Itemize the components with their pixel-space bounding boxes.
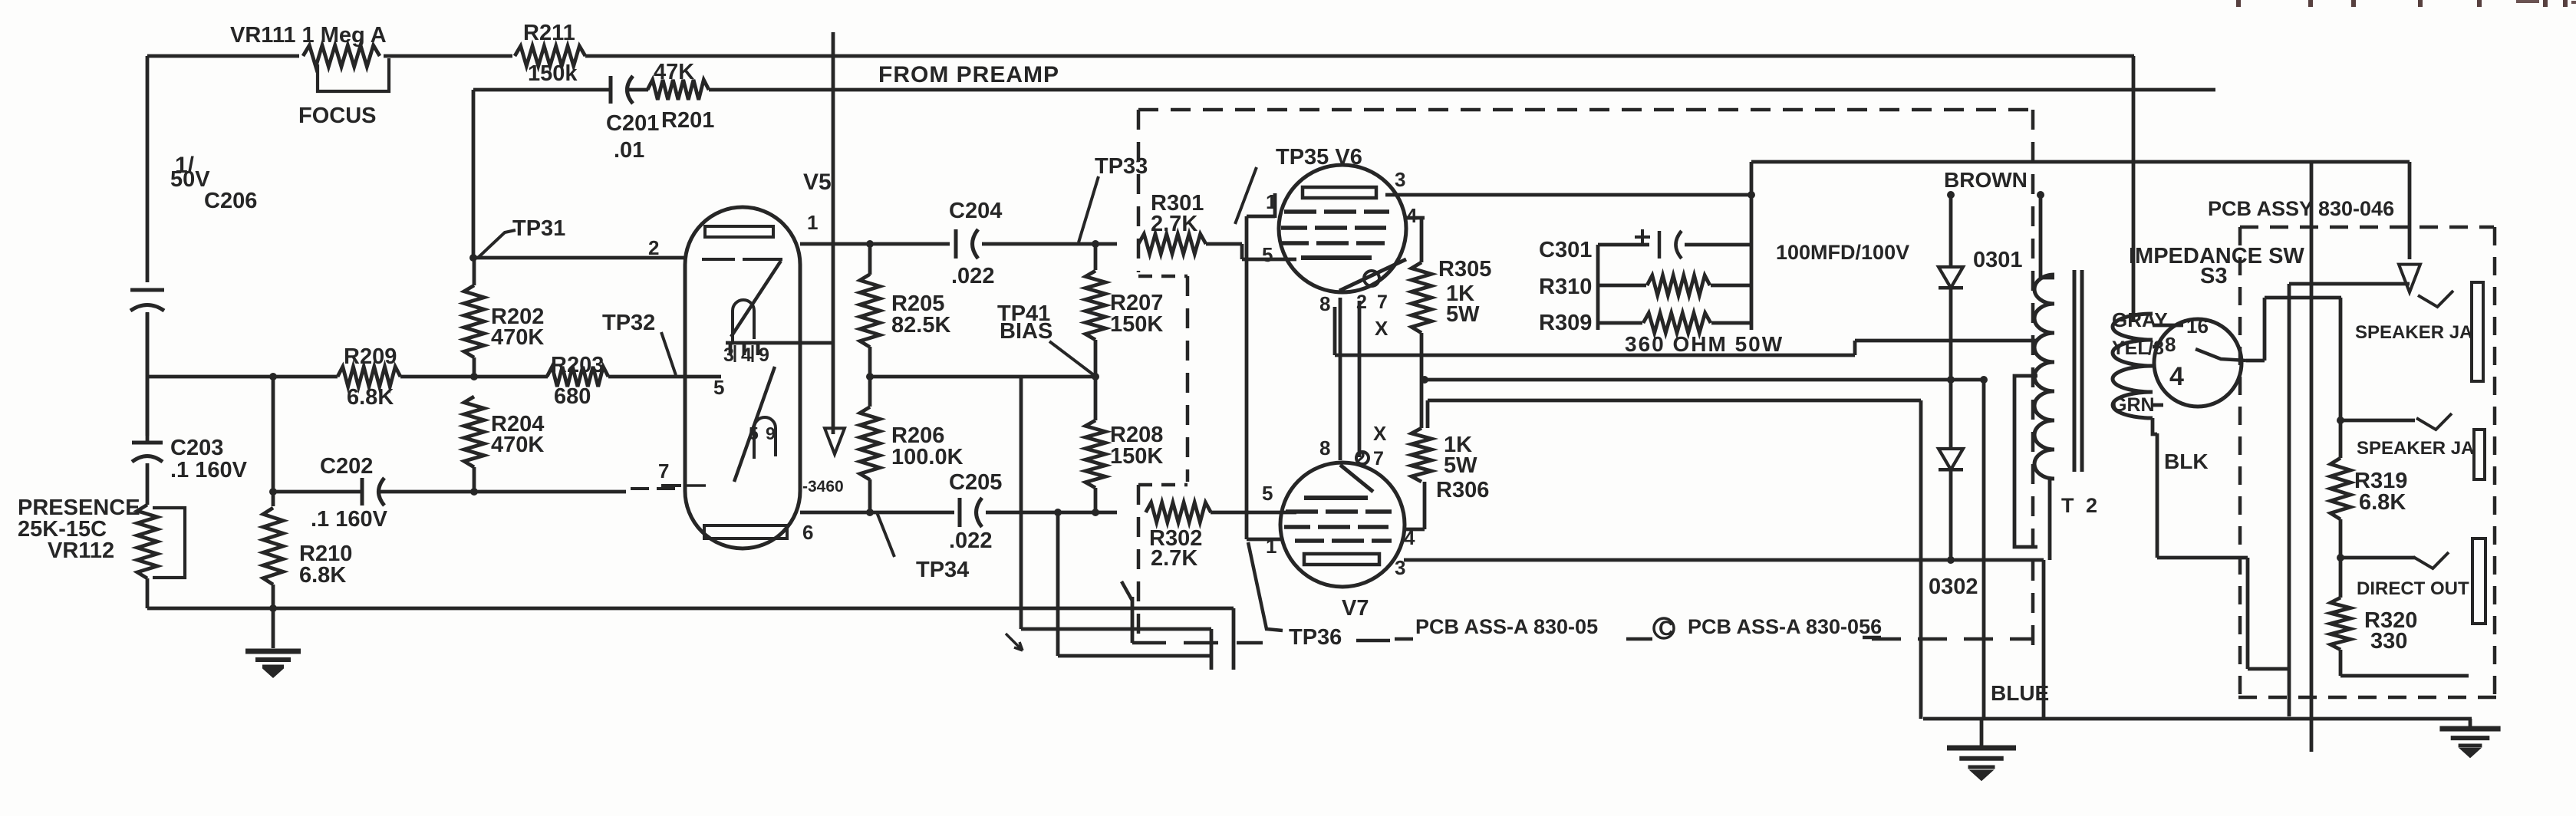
svg-text:GRN: GRN [2112, 394, 2155, 416]
svg-text:.1 160V: .1 160V [170, 458, 248, 482]
svg-text:2: 2 [1356, 291, 1367, 313]
svg-text:/8: /8 [2148, 338, 2164, 359]
svg-text:X: X [1373, 422, 1387, 445]
svg-text:6: 6 [802, 521, 813, 544]
svg-text:DIRECT OUT: DIRECT OUT [2357, 578, 2469, 599]
svg-text:C206: C206 [204, 189, 257, 213]
svg-text:6.8K: 6.8K [347, 385, 394, 410]
svg-text:R211: R211 [523, 21, 575, 45]
svg-text:PCB ASSY: PCB ASSY [2208, 197, 2313, 220]
svg-text:4: 4 [1404, 526, 1415, 549]
svg-text:2: 2 [1355, 448, 1365, 469]
svg-text:C202: C202 [320, 454, 373, 479]
svg-text:100.0K: 100.0K [891, 445, 964, 469]
svg-text:.022: .022 [951, 264, 994, 288]
svg-text:TP35 V6: TP35 V6 [1276, 145, 1362, 170]
svg-text:3: 3 [1395, 168, 1405, 191]
svg-text:150K: 150K [1110, 312, 1163, 337]
svg-text:0302: 0302 [1929, 575, 1978, 599]
svg-text:150K: 150K [1110, 444, 1163, 469]
svg-text:5: 5 [1262, 482, 1273, 505]
svg-text:.1 160V: .1 160V [311, 507, 388, 532]
svg-text:TP36: TP36 [1289, 625, 1342, 650]
svg-text:6.8K: 6.8K [2359, 490, 2406, 515]
svg-text:-3460: -3460 [802, 478, 844, 496]
svg-text:R203: R203 [551, 353, 604, 377]
svg-text:VR112: VR112 [48, 538, 114, 563]
svg-text:47K: 47K [654, 60, 694, 84]
svg-text:X: X [1375, 317, 1388, 340]
svg-text:TP32: TP32 [602, 311, 655, 335]
svg-text:SPEAKER JA: SPEAKER JA [2355, 322, 2472, 343]
svg-text:470K: 470K [491, 325, 544, 350]
svg-text:5W: 5W [1446, 302, 1480, 327]
svg-text:5W: 5W [1444, 453, 1477, 478]
svg-text:7: 7 [1373, 448, 1384, 469]
svg-text:2.7K: 2.7K [1151, 546, 1197, 571]
svg-text:330: 330 [2370, 629, 2407, 654]
svg-text:SPEAKER JA: SPEAKER JA [2357, 438, 2474, 459]
svg-text:9: 9 [759, 344, 769, 366]
svg-text:R209: R209 [344, 344, 397, 369]
svg-text:9: 9 [766, 423, 776, 443]
svg-text:830-046: 830-046 [2318, 197, 2394, 220]
svg-text:C204: C204 [949, 199, 1002, 223]
svg-text:V5: V5 [803, 170, 832, 195]
svg-text:FROM PREAMP: FROM PREAMP [878, 62, 1059, 87]
svg-text:7: 7 [658, 459, 669, 482]
svg-text:.01: .01 [614, 138, 644, 163]
svg-text:82.5K: 82.5K [891, 313, 950, 338]
svg-text:1: 1 [807, 211, 818, 234]
svg-text:5: 5 [713, 376, 724, 399]
svg-text:100MFD/100V: 100MFD/100V [1776, 241, 1909, 264]
svg-text:C205: C205 [949, 470, 1002, 495]
svg-text:7: 7 [1377, 291, 1388, 313]
svg-text:PCB ASS-A 830-056: PCB ASS-A 830-056 [1688, 615, 1882, 638]
svg-text:TP34: TP34 [916, 558, 969, 582]
svg-text:150k: 150k [528, 61, 578, 86]
svg-text:R201: R201 [661, 108, 714, 133]
svg-text:4: 4 [1406, 204, 1418, 227]
svg-text:8: 8 [1319, 292, 1330, 315]
svg-text:470K: 470K [491, 433, 544, 457]
svg-text:680: 680 [554, 384, 591, 409]
svg-text:YEL: YEL [2112, 338, 2149, 359]
svg-text:VR111 1 Meg A: VR111 1 Meg A [230, 23, 387, 48]
svg-text:2.7K: 2.7K [1151, 212, 1197, 236]
svg-text:1: 1 [1266, 190, 1276, 213]
svg-text:GRAY: GRAY [2112, 308, 2168, 331]
svg-text:6.8K: 6.8K [299, 563, 346, 588]
svg-text:PCB ASS-A 830-05: PCB ASS-A 830-05 [1415, 615, 1598, 638]
svg-text:4: 4 [741, 344, 752, 366]
svg-text:TP31: TP31 [512, 216, 565, 241]
svg-text:.022: .022 [949, 529, 992, 553]
svg-text:V7: V7 [1342, 596, 1369, 621]
svg-text:3: 3 [1395, 556, 1405, 579]
svg-text:T 2: T 2 [2061, 494, 2100, 517]
svg-text:1: 1 [1266, 535, 1276, 558]
svg-text:5: 5 [1262, 243, 1273, 266]
svg-text:R306: R306 [1436, 478, 1489, 502]
svg-text:3: 3 [723, 344, 734, 366]
svg-text:360 OHM 50W: 360 OHM 50W [1625, 332, 1784, 356]
svg-text:8: 8 [1319, 436, 1330, 459]
svg-text:R309: R309 [1539, 311, 1592, 335]
svg-text:TP33: TP33 [1095, 154, 1148, 179]
svg-text:4: 4 [2169, 362, 2184, 391]
svg-text:BLK: BLK [2164, 450, 2209, 473]
svg-text:C201: C201 [606, 111, 659, 136]
svg-text:8: 8 [2165, 333, 2176, 356]
svg-text:C203: C203 [170, 436, 223, 460]
svg-text:0301: 0301 [1973, 248, 2023, 272]
svg-text:FOCUS: FOCUS [298, 104, 377, 128]
svg-text:BLUE: BLUE [1991, 681, 2049, 705]
svg-text:R305: R305 [1438, 257, 1491, 282]
svg-text:BIAS: BIAS [1000, 319, 1052, 344]
svg-text:S3: S3 [2200, 264, 2227, 288]
svg-text:16: 16 [2186, 314, 2209, 338]
svg-text:R310: R310 [1539, 275, 1592, 299]
svg-text:BROWN: BROWN [1944, 168, 2028, 192]
svg-text:5: 5 [749, 423, 759, 443]
svg-text:C301: C301 [1539, 238, 1592, 262]
svg-text:2: 2 [648, 236, 659, 259]
svg-text:C: C [1659, 617, 1674, 640]
